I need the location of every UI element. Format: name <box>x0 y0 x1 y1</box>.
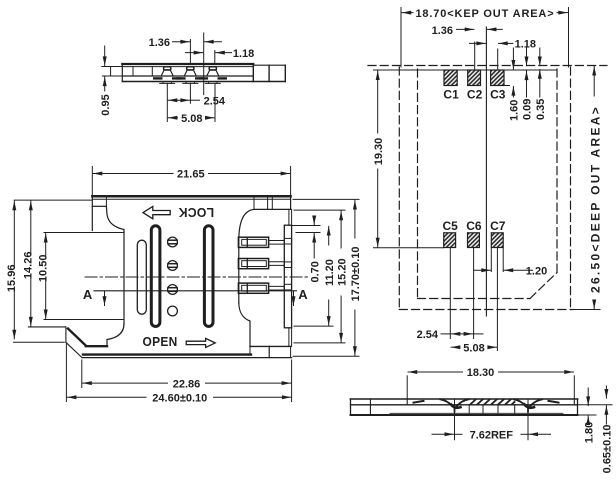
svg-text:15.96: 15.96 <box>6 265 18 293</box>
svg-text:0.35: 0.35 <box>535 99 547 120</box>
open direction outline arrow <box>186 338 215 347</box>
svg-text:2.54: 2.54 <box>204 96 226 108</box>
footprint inner dashed outline with chamfer <box>418 69 558 299</box>
footprint keep-out dashed outline (outer) <box>368 66 607 310</box>
pad C6 <box>466 219 482 248</box>
dimension 19.30 (footprint) <box>373 71 385 247</box>
svg-text:C1: C1 <box>443 87 459 101</box>
svg-text:14.26: 14.26 <box>23 252 35 280</box>
footprint center reference line <box>485 27 487 316</box>
svg-text:24.60±0.10: 24.60±0.10 <box>152 392 207 404</box>
svg-text:OPEN: OPEN <box>143 335 178 350</box>
right terminal block <box>284 209 291 346</box>
svg-text:10.50: 10.50 <box>38 255 50 283</box>
dimension 21.65 <box>92 167 290 196</box>
svg-text:18.70<KEP OUT AREA>: 18.70<KEP OUT AREA> <box>415 8 554 20</box>
card slot edge lines (left) <box>44 233 124 320</box>
svg-text:1.20: 1.20 <box>526 265 547 277</box>
centerline (dash-dot) <box>85 276 310 278</box>
side view 2 body <box>351 399 578 415</box>
side view 2 spring contact 2 <box>514 399 542 411</box>
cover hole 2 <box>168 261 178 271</box>
main body left waist edge <box>107 232 124 346</box>
dimension 18.30 <box>407 367 574 398</box>
dimension 11.20 <box>294 226 336 326</box>
side view 1 extension lines <box>167 33 215 122</box>
dimension 0.95 (view 1) <box>100 46 112 116</box>
svg-text:2.54: 2.54 <box>417 329 439 341</box>
svg-text:1.36: 1.36 <box>432 25 453 37</box>
section line A-A <box>83 287 308 306</box>
side view 1 contact 1 <box>154 67 180 84</box>
dimension 1.18 (footprint) <box>470 39 537 51</box>
side view 1 left tab <box>102 67 124 77</box>
svg-text:C3: C3 <box>490 87 506 101</box>
dimension 1.60 (footprint) <box>509 48 521 121</box>
dimension 18.70 KEP OUT AREA <box>401 8 569 68</box>
svg-text:C2: C2 <box>467 87 483 101</box>
card slot (thin, left) <box>137 240 146 314</box>
card slot (thick) 2 <box>204 226 213 327</box>
svg-text:18.30: 18.30 <box>467 367 495 379</box>
side view 2 spring contact 1 <box>441 399 469 411</box>
svg-text:1.36: 1.36 <box>149 37 170 49</box>
dimension 17.70±0.10 <box>293 199 362 356</box>
svg-text:19.30: 19.30 <box>373 138 385 166</box>
dimension 24.60±0.10 <box>66 344 291 404</box>
dimension 26.50 DEEP OUT AREA <box>572 66 603 309</box>
dimension 22.86 <box>82 360 292 402</box>
terminal contact group 1 <box>238 237 284 247</box>
svg-text:1.80: 1.80 <box>583 422 595 443</box>
dimension 1.36 (view 1) <box>149 37 222 49</box>
side view 1 contact 2 <box>177 67 203 84</box>
dimension 2.54 (view 1) <box>168 96 226 108</box>
side view 2 contact area hatch <box>471 400 515 405</box>
svg-text:22.86: 22.86 <box>173 378 201 390</box>
svg-text:0.65±0.10: 0.65±0.10 <box>602 425 614 474</box>
main body bottom-left chamfer <box>14 327 107 358</box>
cover hole 1 <box>168 237 178 247</box>
main body right edge <box>239 240 250 346</box>
svg-text:C7: C7 <box>490 219 506 233</box>
svg-text:A: A <box>83 287 93 302</box>
svg-text:26.50<DEEP OUT AREA>: 26.50<DEEP OUT AREA> <box>589 105 603 293</box>
dimension 15.20 <box>294 210 348 343</box>
svg-text:1.60: 1.60 <box>509 100 521 121</box>
dimension 1.20 (footprint) <box>474 265 547 277</box>
svg-text:21.65: 21.65 <box>177 169 205 181</box>
svg-text:C6: C6 <box>466 219 482 233</box>
pad C1 <box>443 70 459 101</box>
lock direction outline arrow <box>143 206 170 218</box>
cover hole 4 <box>168 306 178 316</box>
svg-text:A: A <box>298 287 308 302</box>
dimension 5.08 (footprint) <box>451 342 497 354</box>
dimension 7.62REF <box>432 399 551 442</box>
svg-text:1.18: 1.18 <box>515 39 536 51</box>
svg-text:LOCK: LOCK <box>178 205 214 219</box>
svg-text:5.08: 5.08 <box>181 113 202 125</box>
cover hole 3 <box>168 285 178 295</box>
svg-text:1.18: 1.18 <box>233 48 254 60</box>
svg-text:17.70±0.10: 17.70±0.10 <box>350 247 362 302</box>
pad C5 <box>442 219 458 248</box>
side view 1 contact 3 <box>200 67 226 84</box>
dimension 0.70 <box>292 218 322 283</box>
dimension 5.08 (view 1) <box>168 113 214 125</box>
pad C7 <box>490 219 506 248</box>
dimension 0.65±0.10 <box>578 386 614 473</box>
side view 2 shell tab marks <box>414 401 559 403</box>
dimension 0.35 (footprint) <box>535 48 547 120</box>
dimension 1.18 (view 1) <box>186 48 255 60</box>
side view 1 body outline <box>122 64 285 82</box>
svg-text:0.95: 0.95 <box>100 94 112 115</box>
svg-text:5.08: 5.08 <box>463 342 484 354</box>
pad C3 <box>490 70 506 101</box>
main body top flange <box>92 196 290 240</box>
dimension 0.09 (footprint) <box>522 48 534 120</box>
pad C2 <box>467 70 483 101</box>
terminal contact group 2 <box>238 259 284 269</box>
dimension 14.26 <box>23 201 35 326</box>
dimension 15.96 <box>6 200 92 339</box>
svg-text:7.62REF: 7.62REF <box>470 430 514 442</box>
dimension 2.54 (footprint) <box>417 329 483 341</box>
terminal contact group 3 <box>238 283 284 293</box>
svg-text:11.20: 11.20 <box>324 259 336 286</box>
pad extension lines (footprint) <box>374 42 557 351</box>
card slot (thick) 1 <box>151 226 160 327</box>
svg-text:0.09: 0.09 <box>522 99 534 120</box>
svg-text:C5: C5 <box>442 219 458 233</box>
svg-text:15.20: 15.20 <box>336 258 348 286</box>
dimension 1.36 (footprint) <box>432 25 503 37</box>
dimension 1.80 <box>578 388 597 443</box>
svg-text:0.70: 0.70 <box>309 261 321 282</box>
main body bottom flange <box>82 346 292 357</box>
dimension 10.50 <box>38 233 50 318</box>
